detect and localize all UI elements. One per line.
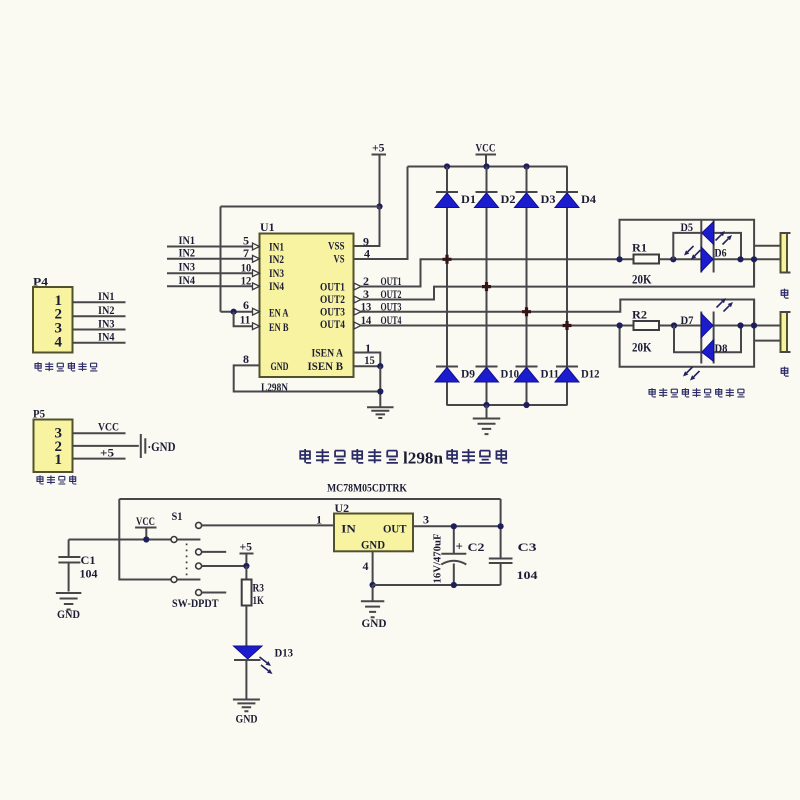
- junction EN A EN B: [231, 309, 237, 315]
- junction OUT1 node A: [616, 256, 622, 262]
- svg-text:IN4: IN4: [179, 273, 196, 287]
- junction D7 right: [737, 322, 743, 328]
- capacitor C1: [58, 540, 80, 592]
- junction C2 top: [451, 523, 457, 529]
- svg-text:GND: GND: [57, 607, 80, 621]
- label connector motor 2: [781, 367, 788, 376]
- led D7 triangle: [701, 314, 713, 338]
- svg-text:D13: D13: [275, 646, 294, 660]
- junction R1 right: [670, 256, 676, 262]
- svg-text:VCC: VCC: [98, 420, 119, 434]
- junction node C2: [751, 322, 757, 328]
- switch S1 pole B arm: [177, 579, 200, 581]
- diode D10: [476, 366, 498, 368]
- wire R2 block outer loop: [620, 300, 755, 367]
- svg-text:GND: GND: [236, 712, 258, 726]
- svg-text:20K: 20K: [632, 341, 652, 355]
- wire +5 horizontal to EN riser: [221, 206, 380, 208]
- svg-text:+5: +5: [372, 141, 385, 155]
- pin arrow OUT1: [354, 283, 361, 290]
- pin arrow OUT2: [354, 296, 361, 303]
- capacitor C2 positive: [441, 526, 466, 585]
- led D8 triangle: [702, 340, 714, 362]
- svg-text:MC78M05CDTRK: MC78M05CDTRK: [327, 481, 408, 495]
- wire VCC bus: [408, 166, 568, 168]
- wire bottom diode bus: [447, 404, 567, 406]
- svg-text:GND: GND: [271, 359, 289, 373]
- svg-text:8: 8: [243, 352, 249, 366]
- junction OUT4 node A2: [617, 322, 623, 328]
- led D6 cathode bar: [713, 221, 715, 273]
- wire diode column D4/D12: [566, 167, 568, 406]
- junction bottom bus D10: [483, 402, 489, 408]
- switch S1 throw 2 contact: [196, 549, 202, 555]
- svg-text:C1: C1: [81, 553, 96, 567]
- pin arrow IN4: [253, 283, 260, 290]
- junction C3 top: [498, 523, 504, 529]
- svg-text:IN2: IN2: [269, 252, 284, 266]
- wire diode column D3/D11: [526, 167, 528, 406]
- svg-text:+: +: [456, 539, 463, 554]
- wire P4 stub IN3: [73, 329, 126, 331]
- ground below diode bridge: [486, 405, 488, 418]
- led D5 cathode bar: [700, 221, 702, 273]
- svg-text:ISEN A: ISEN A: [312, 346, 344, 360]
- junction bottom bus D11: [523, 402, 529, 408]
- junction cross OUT4 D4: [563, 321, 572, 330]
- led D5 triangle: [702, 222, 714, 245]
- led D13 triangle: [234, 646, 263, 659]
- connector motor 1: [781, 233, 788, 273]
- svg-text:6: 6: [243, 298, 249, 312]
- switch S1 linkage dotted: [186, 544, 188, 578]
- wire U1 input stub IN3: [167, 272, 254, 274]
- wire VS pin 4 to VCC bus: [354, 167, 408, 260]
- wire EN A stub: [221, 311, 254, 313]
- switch S1 throw 1 contact: [196, 522, 202, 528]
- svg-text:D5: D5: [681, 220, 694, 234]
- wire +5 top rail: [119, 498, 500, 500]
- pin arrow IN3: [253, 270, 260, 277]
- svg-text:D1: D1: [461, 192, 476, 206]
- switch S1 pole A arm: [177, 539, 200, 541]
- svg-text:1: 1: [55, 452, 63, 468]
- svg-text:OUT3: OUT3: [381, 299, 402, 313]
- capacitor C3: [489, 526, 513, 585]
- led D6 triangle: [701, 247, 713, 272]
- svg-text:R2: R2: [632, 308, 647, 322]
- wire R1 block outer loop: [620, 220, 755, 287]
- wire OUT4 net to R2 row: [354, 325, 781, 327]
- wire U1 input stub IN2: [167, 258, 254, 260]
- diode D9: [436, 366, 458, 368]
- svg-text:GND: GND: [361, 538, 385, 552]
- resistor R2: [634, 321, 660, 330]
- wire ISEN A pin 1: [354, 353, 381, 367]
- wire D5 branch loop: [673, 233, 741, 259]
- svg-text:IN3: IN3: [98, 316, 115, 330]
- svg-text:U1: U1: [260, 220, 275, 234]
- diode D11: [516, 366, 538, 368]
- wire S1 throw3 to +5: [202, 565, 247, 567]
- svg-text:·GND: ·GND: [148, 440, 176, 454]
- svg-text:SW-DPDT: SW-DPDT: [172, 596, 219, 610]
- diode D4: [556, 191, 578, 193]
- connector motor 2: [781, 312, 788, 352]
- wire OUT1 net to R1 row: [354, 259, 781, 286]
- svg-text:EN B: EN B: [269, 320, 289, 334]
- svg-text:1: 1: [316, 513, 322, 527]
- led D7 arrows: [717, 302, 723, 308]
- svg-text:D7: D7: [681, 313, 694, 327]
- svg-text:D2: D2: [501, 192, 516, 206]
- svg-text:OUT4: OUT4: [381, 313, 402, 327]
- svg-text:IN: IN: [341, 522, 356, 536]
- pin arrow OUT3: [354, 308, 361, 315]
- svg-text:104: 104: [517, 568, 538, 582]
- wire P5 pin3 VCC stub: [73, 432, 126, 434]
- wire OUT2 net: [354, 259, 755, 299]
- wire ISEN B pin 15: [354, 365, 381, 367]
- svg-text:15: 15: [364, 353, 375, 367]
- svg-text:R1: R1: [632, 241, 647, 255]
- wire ISEN to ground: [379, 366, 381, 406]
- svg-text:VCC: VCC: [136, 514, 155, 528]
- svg-text:ISEN B: ISEN B: [308, 359, 344, 373]
- switch S1 throw 4 contact: [196, 590, 202, 596]
- svg-text:IN2: IN2: [179, 245, 196, 259]
- switch S1 pole B contact: [171, 577, 177, 583]
- wire U1 input stub IN4: [167, 285, 254, 287]
- svg-text:+5: +5: [240, 540, 253, 554]
- junction ISEN ground loop: [377, 388, 383, 394]
- junction VCC C1 wire: [143, 536, 149, 542]
- wire EN riser vertical: [220, 207, 222, 312]
- svg-text:VCC: VCC: [476, 141, 496, 155]
- diode D12: [556, 366, 578, 368]
- wire C1 to switch pole A: [69, 539, 171, 541]
- svg-text:D11: D11: [541, 367, 560, 381]
- junction VCC bus VCC stem: [483, 163, 489, 169]
- svg-text:13: 13: [361, 299, 372, 313]
- connector P5 body: [34, 420, 73, 473]
- wire D8 branch loop: [674, 326, 741, 353]
- svg-text:IN2: IN2: [98, 303, 115, 317]
- svg-text:14: 14: [361, 313, 372, 327]
- ground U2: [372, 585, 374, 601]
- junction C2 bottom: [451, 582, 457, 588]
- label system power text: [37, 475, 44, 484]
- svg-text:+5: +5: [100, 445, 114, 459]
- switch S1 pole A contact: [171, 537, 177, 543]
- diode D3: [516, 191, 538, 193]
- junction cross OUT2 D2: [482, 282, 491, 291]
- junction ISEN A B: [377, 363, 383, 369]
- svg-text:4: 4: [55, 334, 63, 350]
- wire connector1 upper pin tap: [754, 245, 780, 247]
- led D7 cathode bar: [700, 312, 702, 364]
- junction cross OUT3 D3: [522, 307, 531, 316]
- svg-text:4: 4: [364, 247, 370, 261]
- diode D2: [476, 191, 498, 193]
- svg-text:D9: D9: [461, 367, 475, 381]
- wire U1 input stub IN1: [167, 246, 254, 248]
- ground D13: [233, 700, 260, 712]
- wire P4 stub IN4: [73, 342, 126, 344]
- svg-text:C3: C3: [518, 540, 537, 554]
- svg-text:EN A: EN A: [269, 306, 289, 320]
- svg-text:D10: D10: [501, 367, 520, 381]
- wire EN B stub: [234, 312, 254, 327]
- svg-text:11: 11: [240, 313, 251, 327]
- svg-text:D12: D12: [581, 367, 600, 381]
- svg-text:OUT: OUT: [383, 522, 407, 536]
- wire U2 GND pin 4: [372, 551, 374, 585]
- svg-text:IN3: IN3: [179, 260, 196, 274]
- junction VCC bus D3: [523, 163, 529, 169]
- power GND port P5: [141, 434, 146, 458]
- svg-text:D8: D8: [715, 341, 728, 355]
- svg-text:16V/470uF: 16V/470uF: [432, 533, 444, 583]
- svg-text:4: 4: [363, 559, 369, 573]
- pin arrow EN A: [253, 308, 260, 315]
- wire R3 to D13: [245, 606, 247, 647]
- svg-text:l298n: l298n: [403, 449, 444, 468]
- note text programming reference l298n: [300, 449, 311, 463]
- svg-text:OUT4: OUT4: [320, 317, 345, 331]
- junction D6 right: [737, 256, 743, 262]
- wire left rail down to switch pole B: [119, 499, 171, 580]
- led D6 arrows: [688, 246, 694, 252]
- led D13 cathode bar: [234, 659, 261, 661]
- svg-text:20K: 20K: [632, 273, 652, 287]
- svg-text:104: 104: [80, 567, 98, 581]
- wire connector2 lower pin tap: [754, 340, 780, 342]
- junction node C: [751, 256, 757, 262]
- wire P5 pin2 GND stub: [73, 445, 139, 447]
- svg-text:3: 3: [423, 513, 429, 527]
- label connector motor 1: [781, 289, 788, 298]
- svg-text:IN4: IN4: [269, 279, 284, 293]
- wire OUT3 net: [354, 300, 755, 326]
- ground C1: [56, 593, 82, 610]
- wire +5 rail down to OUT net: [500, 499, 502, 526]
- svg-text:D6: D6: [715, 246, 727, 260]
- wire diode column D1/D9: [446, 167, 448, 406]
- svg-text:1K: 1K: [253, 593, 265, 607]
- svg-text:7: 7: [243, 246, 249, 260]
- label motor control signal text: [35, 362, 42, 371]
- voltage regulator U2 body: [334, 514, 413, 552]
- svg-text:IN4: IN4: [98, 330, 115, 344]
- junction cross OUT1 D1: [443, 255, 452, 264]
- pin arrow IN1: [253, 243, 260, 250]
- junction VCC bus D1: [444, 163, 450, 169]
- connector P4 body: [33, 287, 73, 353]
- resistor R3: [242, 580, 252, 606]
- svg-text:C2: C2: [468, 540, 485, 554]
- wire P4 stub IN1: [73, 301, 126, 303]
- wire bottom rail: [373, 584, 501, 586]
- wire D13 to ground: [245, 660, 247, 699]
- junction R2 right: [671, 322, 677, 328]
- led D13 arrows: [260, 657, 267, 663]
- pin arrow IN2: [253, 255, 260, 262]
- led D8 arrows: [687, 367, 693, 373]
- svg-text:D3: D3: [541, 192, 556, 206]
- resistor R1: [634, 255, 660, 264]
- svg-text:IN1: IN1: [98, 289, 115, 303]
- led D5 arrows: [716, 235, 722, 241]
- svg-text:10: 10: [241, 261, 252, 275]
- svg-text:GND: GND: [362, 616, 387, 630]
- svg-text:VS: VS: [334, 252, 345, 266]
- ground U1: [367, 407, 394, 418]
- wire diode column D2/D10: [486, 167, 488, 406]
- wire P4 stub IN2: [73, 315, 126, 317]
- junction +5 throw3: [243, 563, 249, 569]
- led D8 cathode bar: [713, 312, 715, 364]
- pin arrow EN B: [253, 323, 260, 330]
- label motor direction indicator text: [649, 388, 656, 397]
- wire GND pin 8 loop: [234, 365, 381, 391]
- wire S1 throw4 stub: [202, 592, 226, 594]
- diode D1: [436, 191, 458, 193]
- node +5 junction: [376, 203, 382, 209]
- wire S1 throw2 stub: [202, 551, 226, 553]
- wire U2 OUT pin 3: [413, 525, 501, 527]
- wire +5 to R3: [245, 566, 247, 580]
- switch S1 throw 3 contact: [196, 563, 202, 569]
- svg-text:12: 12: [241, 274, 252, 288]
- wire S1 throw1 to U2 IN: [202, 524, 334, 526]
- svg-text:S1: S1: [172, 509, 183, 523]
- svg-text:VSS: VSS: [328, 239, 345, 253]
- svg-text:D4: D4: [581, 192, 596, 206]
- svg-text:IN3: IN3: [269, 266, 284, 280]
- wire VSS pin 9 connection: [354, 207, 380, 247]
- wire P5 pin1 +5 stub: [73, 458, 126, 460]
- pin arrow OUT4: [354, 322, 361, 329]
- svg-text:P5: P5: [33, 407, 45, 421]
- op-amp U1 body: [260, 234, 354, 378]
- junction U2 gnd rail: [370, 582, 376, 588]
